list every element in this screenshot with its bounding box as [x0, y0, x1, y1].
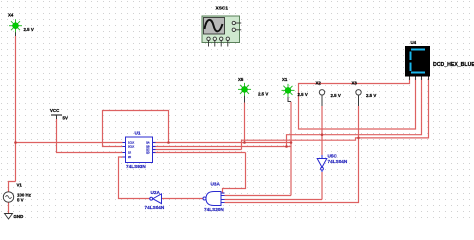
svg-text:74LS93N: 74LS93N	[126, 164, 146, 169]
svg-text:U4: U4	[411, 40, 417, 45]
wire V1 top corner	[9, 182, 16, 193]
svg-text:VCC: VCC	[50, 108, 60, 113]
counter U1 74LS93N	[123, 131, 156, 170]
svg-text:74LS04N: 74LS04N	[145, 205, 165, 210]
wire VCC drop	[57, 119, 123, 153]
junction node dots	[14, 133, 360, 147]
svg-text:2.5 V: 2.5 V	[298, 92, 308, 97]
svg-text:2.5 V: 2.5 V	[24, 27, 34, 32]
X1 probe stem jog	[288, 94, 291, 102]
svg-text:74LS04N: 74LS04N	[328, 159, 348, 164]
wire U5C to U3A input 3	[225, 199, 323, 201]
svg-text:X2: X2	[316, 81, 322, 86]
wire V1 to ground	[8, 203, 10, 214]
svg-text:DCD_HEX_BLUE: DCD_HEX_BLUE	[433, 62, 474, 68]
wire QD output	[153, 152, 246, 154]
svg-text:U1: U1	[135, 131, 141, 136]
NAND U3A 74LS20N (mirrored)	[203, 182, 225, 212]
seven-segment display U4 DCD_HEX_BLUE	[405, 40, 474, 77]
AC source V1	[3, 183, 31, 203]
X4 probe stem	[15, 29, 17, 37]
svg-text:XSC1: XSC1	[216, 5, 229, 11]
svg-text:V1: V1	[17, 183, 23, 188]
X5 probe stem	[244, 93, 246, 103]
svg-text:X3: X3	[352, 81, 358, 86]
svg-text:U3A: U3A	[211, 182, 221, 187]
svg-text:2CLK: 2CLK	[128, 146, 135, 149]
wire QA output	[153, 142, 292, 144]
wire X5 stem	[244, 103, 246, 143]
wire U3A input 2 horizontal	[225, 195, 292, 197]
svg-text:2R: 2R	[128, 156, 131, 159]
svg-text:QA: QA	[146, 142, 150, 145]
svg-text:5 V: 5 V	[17, 198, 24, 203]
svg-text:QD: QD	[146, 152, 150, 155]
probe X5	[238, 77, 268, 97]
wire U5C output down	[321, 172, 323, 200]
wire QC output	[153, 149, 242, 151]
wire QB output	[153, 146, 292, 148]
wire X1 vertical to U3A input 2	[290, 102, 292, 196]
probe X1	[282, 77, 308, 97]
svg-text:U2A: U2A	[151, 190, 161, 195]
wire QA feedback loop top	[103, 111, 169, 147]
ground	[5, 214, 24, 220]
wire V1 to X4 vertical	[15, 36, 17, 182]
U4 pin stubs	[409, 77, 411, 81]
svg-text:1R: 1R	[128, 152, 131, 155]
svg-text:2.5 V: 2.5 V	[258, 92, 268, 97]
probe X3 (unlit)	[352, 81, 377, 99]
VCC power symbol	[50, 108, 68, 121]
inverter U5C 74LS04N (pointing down)	[317, 154, 348, 173]
svg-text:X5: X5	[238, 77, 244, 82]
svg-text:74LS20N: 74LS20N	[204, 207, 224, 212]
svg-text:2.5 V: 2.5 V	[366, 93, 376, 98]
wire QD staircase to U3A input 1	[223, 153, 246, 194]
svg-text:2.5 V: 2.5 V	[331, 93, 341, 98]
svg-text:1CLK: 1CLK	[128, 142, 135, 145]
probe X4	[8, 13, 34, 33]
svg-text:5V: 5V	[63, 116, 68, 121]
probe X2 (unlit)	[316, 81, 341, 99]
wire U2A input to U3A output	[162, 198, 204, 200]
wire QC zigzag over X3 to U4 pin4	[242, 78, 429, 150]
wire X3 stem down to U3A input 4	[225, 106, 359, 203]
wire X2 stem to U5C input	[321, 106, 323, 155]
wire R02 to U2A output	[119, 157, 150, 199]
svg-text:GND: GND	[14, 214, 24, 219]
X3 probe stem	[358, 95, 360, 106]
svg-text:X4: X4	[8, 13, 14, 18]
X2 probe stem	[321, 95, 323, 106]
svg-text:X1: X1	[282, 77, 288, 82]
wire QB riser to U4 pin3	[287, 78, 422, 147]
wire QA-p1 riser over to U4 pin1 and pin2	[299, 78, 416, 129]
svg-text:U5C: U5C	[328, 154, 338, 159]
oscilloscope XSC1	[202, 5, 241, 46]
wire clock to U1 CLKA	[16, 142, 123, 144]
inverter U2A 74LS04N	[145, 190, 165, 210]
